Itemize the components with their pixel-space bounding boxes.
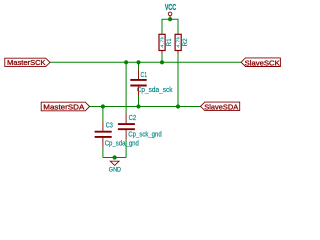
svg-text:C1: C1 <box>141 72 148 79</box>
wire C1 top <box>138 62 140 69</box>
global label SlaveSDA <box>201 102 240 111</box>
junction C3 tap on SDA <box>101 104 105 108</box>
svg-text:4.7k: 4.7k <box>176 36 181 48</box>
power symbol GND <box>109 161 121 174</box>
junction GND rail <box>113 155 117 159</box>
svg-text:Cp_sda_sck: Cp_sda_sck <box>137 87 173 94</box>
global label MasterSCK <box>5 58 50 67</box>
svg-text:GND: GND <box>109 167 121 174</box>
junction C1 bottom on SDA <box>136 104 140 108</box>
junction C1 top on SCK <box>136 60 140 64</box>
svg-text:SlaveSCK: SlaveSCK <box>245 58 280 67</box>
wire C3 top <box>102 107 104 122</box>
svg-text:Cp_sck_gnd: Cp_sck_gnd <box>128 132 161 139</box>
svg-text:C2: C2 <box>129 115 137 122</box>
wire SCK row (MasterSCK to SlaveSCK) <box>50 61 241 63</box>
svg-text:MasterSDA: MasterSDA <box>43 103 84 112</box>
capacitor C1 <box>130 69 173 96</box>
svg-text:C3: C3 <box>106 122 113 129</box>
wire R1 bottom <box>161 54 163 62</box>
junction C2 tap on SCK <box>124 60 128 64</box>
svg-text:4.7k: 4.7k <box>160 36 165 48</box>
resistor R2 <box>175 33 189 54</box>
capacitor C2 <box>118 114 162 140</box>
junction VCC rail <box>168 17 172 21</box>
resistor R1 <box>159 33 173 54</box>
svg-text:MasterSCK: MasterSCK <box>7 58 46 67</box>
global label MasterSDA <box>41 102 89 112</box>
wire C3 bottom <box>102 147 104 157</box>
wire VCC top rail <box>162 19 178 32</box>
svg-text:R2: R2 <box>183 38 189 47</box>
svg-text:SlaveSDA: SlaveSDA <box>204 102 238 111</box>
svg-text:VCC: VCC <box>165 3 176 12</box>
wire R2 bottom (crosses SCK row, to SDA row) <box>177 54 179 107</box>
wire GND bottom rail <box>103 157 126 159</box>
global label SlaveSCK <box>241 58 280 67</box>
svg-text:Cp_sda_gnd: Cp_sda_gnd <box>105 140 139 147</box>
svg-text:R1: R1 <box>167 38 173 47</box>
capacitor C3 <box>95 121 139 147</box>
power symbol VCC <box>165 3 176 19</box>
junction R2 bottom on SDA <box>176 104 180 108</box>
wire C2 top (crosses SDA row) <box>125 62 127 113</box>
junction R1 bottom on SCK <box>160 60 164 64</box>
wire C1 bottom <box>138 96 140 107</box>
wire C2 bottom <box>125 140 127 158</box>
wire SDA row (MasterSDA to SlaveSDA) <box>90 106 201 108</box>
